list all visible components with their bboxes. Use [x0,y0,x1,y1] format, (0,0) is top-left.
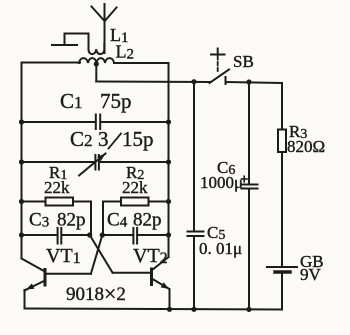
node C6 bottom [246,307,251,312]
wire top rail left [22,62,81,64]
switch SB [210,49,283,85]
wire left rail [21,63,23,259]
node right C4 [166,232,171,237]
inductor L2 [79,58,114,63]
node B (R2/C4 junction) [100,232,105,237]
wire cross couple A to VT2 base [90,235,113,273]
node left C2 [19,159,24,164]
svg-text:75p: 75p [100,89,132,113]
antenna [92,4,117,53]
node A (R1/C3 junction) [87,232,92,237]
node left R row [19,199,24,204]
svg-text:9018×2: 9018×2 [66,281,126,306]
resistor R1 [22,198,92,236]
inductor L1 [89,44,105,54]
capacitor C1 [22,115,169,130]
capacitor C2 variable [22,153,169,175]
wire tap to switch [96,81,209,84]
battery GB [267,267,297,310]
node C5 branch top [191,79,196,84]
node L2 center tap [94,61,99,66]
svg-text:82p: 82p [57,210,86,231]
svg-text:9V: 9V [300,265,322,284]
node left C1 [19,119,24,124]
transistor VT2 [113,257,170,310]
wire antenna feed step [52,34,89,47]
wire bottom rail [25,309,283,310]
svg-text:22k: 22k [44,178,70,197]
wire right column top [281,83,283,130]
wire tap down [95,64,97,82]
wire cross couple B to VT1 base [91,235,102,274]
svg-text:1000μ: 1000μ [200,173,243,192]
svg-text:820Ω: 820Ω [287,137,325,156]
svg-text:15p: 15p [122,127,154,151]
capacitor C3 [22,228,90,244]
node left C3 [19,232,24,237]
svg-text:0. 01μ: 0. 01μ [199,239,242,258]
wire R3 to battery [281,152,283,266]
wire right rail [168,63,170,257]
svg-text:22k: 22k [122,178,148,197]
wire top rail right [114,62,169,64]
node C6 branch top [246,79,251,84]
node right R row [166,199,171,204]
capacitor C6 electrolytic [242,82,258,309]
svg-text:C2: C2 [70,127,93,151]
capacitor C5 [188,82,204,310]
node right C2 [166,159,171,164]
node VT2 emitter bottom [167,307,172,312]
svg-text:SB: SB [233,52,254,71]
node C5 bottom [191,307,196,312]
svg-text:C1: C1 [60,89,83,113]
node right C1 [166,119,171,124]
transistor VT1 [22,259,91,309]
resistor R2 [103,198,169,236]
resistor R3 [278,130,286,153]
capacitor C4 [102,228,168,244]
svg-text:82p: 82p [133,210,162,231]
svg-text:3: 3 [98,127,109,151]
